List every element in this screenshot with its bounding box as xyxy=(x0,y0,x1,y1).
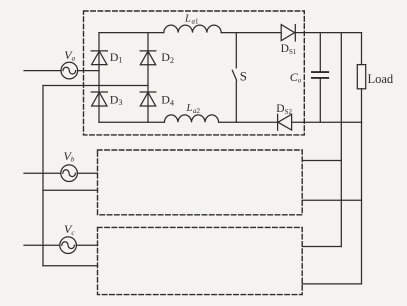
svg-text:S2: S2 xyxy=(285,108,293,116)
svg-text:D: D xyxy=(276,103,284,115)
svg-text:Load: Load xyxy=(368,72,394,86)
svg-text:D: D xyxy=(161,50,170,64)
svg-text:D: D xyxy=(110,50,119,64)
svg-text:D: D xyxy=(110,92,119,106)
svg-text:2: 2 xyxy=(197,107,201,115)
wire Va left terminal xyxy=(24,70,61,72)
source Va xyxy=(61,62,78,79)
svg-text:3: 3 xyxy=(119,98,123,107)
wire bottom rail right segment xyxy=(292,121,362,123)
svg-text:b: b xyxy=(71,156,75,164)
diode D3 xyxy=(91,92,107,106)
svg-text:4: 4 xyxy=(170,98,174,107)
svg-text:1: 1 xyxy=(119,56,123,65)
dashed box phase-b module xyxy=(98,150,303,215)
svg-text:o: o xyxy=(298,77,302,85)
dashed box phase-c module xyxy=(98,227,303,294)
svg-text:L: L xyxy=(184,14,191,25)
load resistor xyxy=(357,33,365,123)
wire neutral bus vertical xyxy=(42,86,44,266)
capacitor Co xyxy=(312,33,328,123)
dashed box phase-a module xyxy=(84,11,305,135)
diode D4 xyxy=(140,92,156,106)
wire Vc to module c xyxy=(76,244,97,246)
svg-text:D: D xyxy=(281,43,289,55)
svg-text:2: 2 xyxy=(170,56,174,65)
wire top rail mid segment xyxy=(221,32,281,34)
svg-text:1: 1 xyxy=(195,17,199,25)
wire phase-a return xyxy=(43,85,148,87)
wire Va to bridge node xyxy=(78,70,99,72)
wire phase-b return xyxy=(43,189,98,191)
wire bridge right column xyxy=(147,33,149,123)
wire Vc left terminal xyxy=(24,244,60,246)
wire phase-c return xyxy=(43,265,98,267)
wire bus positive vertical xyxy=(340,33,342,247)
wire bottom rail left segment xyxy=(99,121,164,123)
diode D1 xyxy=(91,51,107,65)
diode DS1 xyxy=(281,25,295,41)
diode DS2 xyxy=(278,114,292,130)
inductor La2 xyxy=(164,115,218,122)
svg-text:a: a xyxy=(72,55,76,63)
svg-text:c: c xyxy=(71,229,75,237)
wire phase-c negative output xyxy=(302,283,361,285)
wire top rail left segment xyxy=(99,32,164,34)
wire Vb left terminal xyxy=(24,172,61,174)
source Vb xyxy=(61,165,78,182)
wire bottom rail mid segment xyxy=(219,121,278,123)
wire phase-b positive output xyxy=(302,160,341,162)
svg-text:S1: S1 xyxy=(289,48,297,56)
inductor La1 xyxy=(164,25,221,33)
wire phase-b negative output xyxy=(302,199,361,201)
svg-text:L: L xyxy=(186,103,193,114)
svg-text:D: D xyxy=(161,93,170,107)
source Vc xyxy=(60,237,77,254)
diode D2 xyxy=(140,51,156,65)
switch S xyxy=(232,33,236,123)
wire Vb to module b xyxy=(77,172,97,174)
svg-text:S: S xyxy=(240,69,247,84)
wire bridge left column xyxy=(98,33,100,123)
wire phase-c positive output xyxy=(302,246,341,248)
wire top rail right segment xyxy=(295,32,361,34)
wire bus negative vertical xyxy=(361,122,363,284)
